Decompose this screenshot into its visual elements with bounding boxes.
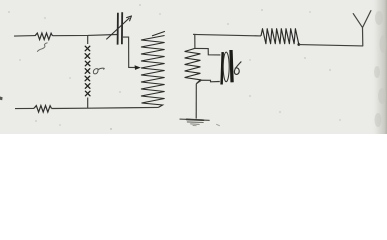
wire from resistor S2 to bottom of coil L1 [52, 107, 159, 108]
junction tick top of resistance R [87, 35, 89, 44]
wire from C1 right plate down to tap on coil L1 [123, 37, 137, 67]
resistance R: chain of x marks [85, 46, 90, 96]
junction dot after choke R3 [297, 43, 300, 46]
detector d: right bar [231, 50, 232, 82]
paper background [0, 0, 387, 134]
faint scan specks [19, 11, 341, 126]
ground symbol [180, 119, 209, 120]
choke R3 (tight zigzag) [261, 29, 299, 45]
wire from antenna line down to coil L2 top [193, 34, 195, 48]
label R (cursive, right of x chain) [93, 68, 104, 74]
wire L2 bottom to detector bottom [196, 80, 219, 83]
detector d: left bar [222, 52, 223, 84]
resistor S1 (top-left zigzag) [35, 33, 53, 40]
wire from resistor S1 to capacitor C1 [53, 35, 118, 36]
detector d: body ellipse [223, 52, 229, 82]
wire bottom-left segment [15, 107, 34, 109]
variable capacitor C1 left plate [117, 13, 119, 45]
variable capacitor C1 right plate [121, 12, 123, 44]
inductor L2 (middle coil) [185, 48, 201, 83]
antenna [353, 11, 371, 46]
wire L2 top to detector top [195, 48, 221, 55]
label S (cursive, below resistor S1) [37, 43, 47, 52]
wire from choke R3 to antenna [299, 45, 363, 46]
wire top-left segment [14, 35, 35, 38]
variable capacitor C1 arrow [106, 18, 129, 40]
inductor L1 (tall coil) [141, 31, 165, 107]
junction tick bottom of resistance R [87, 98, 89, 109]
scan speck left edge [0, 97, 3, 101]
wire L2 bottom to ground [195, 84, 197, 119]
wire from L2 node to choke R3 [193, 34, 261, 36]
resistor S2 (bottom-left zigzag) [34, 106, 52, 113]
tap arrowhead on coil L1 [135, 65, 141, 70]
scan shadow right edge [371, 0, 387, 134]
label d (cursive delta, right of detector) [234, 62, 241, 75]
